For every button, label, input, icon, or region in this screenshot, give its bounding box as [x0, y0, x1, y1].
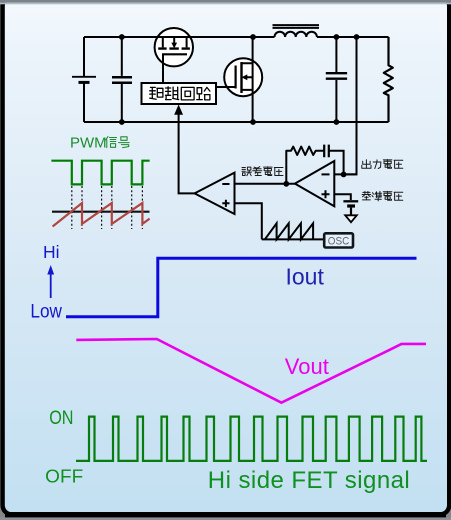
wire Q1 gate to drive box: [162, 54, 164, 83]
sawtooth from OSC: [262, 238, 325, 240]
Vout waveform: [76, 339, 426, 403]
battery B1: [72, 76, 96, 78]
ground arrow: [345, 215, 357, 222]
capacitor C2: [335, 37, 337, 122]
drive box U1: [142, 83, 217, 104]
inductor L1: [275, 32, 317, 37]
wire U3 plus input: [235, 203, 262, 239]
op-amp U3 comparator: [195, 173, 235, 214]
label 駆動回路: [150, 87, 163, 99]
wire U2 plus input: [334, 194, 351, 200]
transistor Q1 internals: [158, 37, 190, 54]
inductor L1 core: [273, 24, 320, 26]
svg-text:Iout: Iout: [286, 263, 325, 289]
feedback network R2 C3: [286, 147, 324, 184]
transistor Q1 body: [155, 28, 193, 66]
node dots ground rail: [119, 119, 125, 125]
resistor R1 load: [384, 37, 393, 122]
PWM square wave: [51, 161, 149, 185]
svg-text:OSC: OSC: [328, 235, 350, 247]
Iout waveform: [66, 258, 417, 317]
label 誤差電圧: [242, 167, 252, 176]
node dots top rail: [119, 34, 125, 40]
comparator level axis: [52, 211, 150, 213]
wire output sense: [344, 37, 357, 174]
svg-text:ON: ON: [49, 407, 73, 429]
OSC box: [324, 233, 353, 247]
svg-text:Low: Low: [30, 301, 62, 322]
wire U3 output to drive box: [179, 112, 195, 193]
battery B1 leads: [83, 37, 85, 122]
transistor Q2 internals: [236, 62, 253, 93]
svg-text:Vout: Vout: [285, 354, 329, 379]
wire top rail: [84, 36, 389, 38]
transistor Q2 body: [224, 58, 262, 96]
svg-text:OFF: OFF: [45, 465, 83, 486]
dotted sample lines: [72, 186, 143, 229]
node minus input: [341, 172, 347, 178]
wire Q2 drain-source rail: [252, 37, 254, 122]
svg-text:PWM: PWM: [70, 135, 107, 152]
wire ground rail: [84, 121, 389, 123]
label 基準電圧: [362, 191, 371, 200]
node error voltage: [283, 181, 289, 187]
red sawtooth: [53, 203, 150, 227]
label 出力電圧: [362, 160, 371, 169]
wire drive box to Q2 gate: [216, 86, 236, 88]
svg-text:Hi: Hi: [43, 242, 60, 262]
capacitor C1: [121, 37, 123, 122]
FET gate waveform: [76, 417, 427, 461]
svg-text:Hi side FET signal: Hi side FET signal: [208, 467, 410, 494]
op-amp U2 error amplifier: [295, 161, 334, 206]
wire U2 output / comparator minus: [235, 183, 295, 185]
wire U2 minus input: [334, 173, 356, 175]
battery B2 reference: [343, 200, 358, 202]
arrow Hi-Low: [50, 272, 52, 298]
